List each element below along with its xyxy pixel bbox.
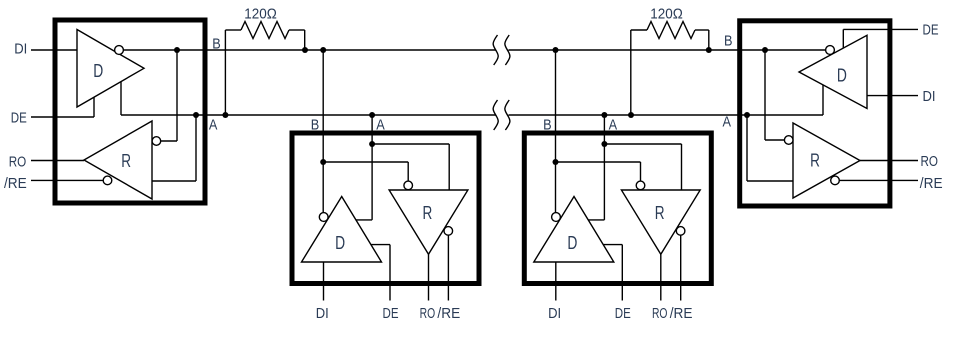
svg-text:RO: RO [652, 305, 668, 322]
svg-text:B: B [311, 116, 320, 133]
svg-text:D: D [837, 66, 847, 86]
svg-text:DI: DI [548, 305, 561, 322]
svg-text:DE: DE [11, 109, 27, 126]
svg-text:/RE: /RE [670, 305, 693, 322]
svg-text:A: A [209, 116, 218, 133]
svg-text:R: R [655, 203, 665, 223]
svg-text:120Ω: 120Ω [650, 6, 683, 23]
svg-text:R: R [423, 203, 433, 223]
svg-text:DI: DI [923, 88, 936, 105]
svg-text:DI: DI [316, 305, 329, 322]
svg-text:D: D [335, 233, 345, 253]
svg-text:D: D [93, 61, 103, 81]
svg-text:R: R [121, 151, 131, 171]
svg-text:RO: RO [921, 153, 939, 170]
svg-text:A: A [376, 116, 385, 133]
svg-text:120Ω: 120Ω [244, 6, 277, 23]
svg-text:/RE: /RE [437, 305, 460, 322]
svg-text:DE: DE [615, 305, 631, 322]
svg-text:RO: RO [420, 305, 436, 322]
svg-text:B: B [543, 116, 552, 133]
svg-text:/RE: /RE [920, 175, 943, 192]
svg-text:D: D [567, 233, 577, 253]
svg-text:B: B [724, 32, 733, 49]
svg-text:R: R [810, 151, 820, 171]
svg-text:DE: DE [923, 21, 939, 38]
svg-text:DI: DI [14, 40, 27, 57]
svg-text:B: B [212, 35, 221, 52]
svg-text:DE: DE [383, 305, 399, 322]
svg-text:A: A [723, 114, 732, 131]
svg-text:RO: RO [9, 153, 27, 170]
svg-text:A: A [609, 116, 618, 133]
svg-text:/RE: /RE [4, 175, 27, 192]
